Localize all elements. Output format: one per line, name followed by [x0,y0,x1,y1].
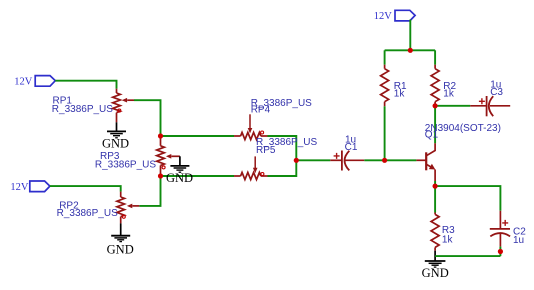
wire C1 to node D [364,159,384,161]
wire node B down to RP2 wiper [139,176,160,206]
wire GND to C2 bottom [435,255,500,257]
capacitor C1 [330,151,364,171]
svg-text:RP4: RP4 [251,104,271,115]
potentiometer RP3 [157,136,180,176]
resistor R1 [381,65,389,107]
wire Q1 emitter to node G [434,181,436,186]
wire RP1 wiper to node A [134,100,161,136]
svg-text:1u: 1u [513,235,524,246]
svg-text:GND: GND [107,242,134,256]
svg-text:12V: 12V [374,11,393,22]
node F junction [433,103,438,108]
svg-text:12V: 12V [10,182,29,193]
transistor Q1 2N3904 [416,143,435,181]
svg-text:R_3386P_US: R_3386P_US [52,104,113,115]
resistor R2 [431,65,439,106]
svg-text:C3: C3 [490,87,503,98]
ground GND2 at RP3 wiper [170,156,189,172]
wire RP4 right to junction C [268,136,297,176]
power flag PWR3 12V top-right [374,10,415,22]
svg-text:1k: 1k [442,234,454,245]
node B junction [158,173,163,178]
wire node B to RP5 left [161,175,235,177]
svg-text:GND: GND [422,266,449,280]
svg-text:GND: GND [102,137,129,151]
svg-text:GND: GND [166,171,193,185]
wire 12V to RP1 top [55,81,116,89]
wire R1 bottom to node D [384,106,386,160]
capacitor C3 [470,96,510,116]
wire node G down to R3 [434,186,436,212]
node E junction [408,48,413,53]
node C junction [294,158,299,163]
ground GND3 under RP2 [107,223,134,256]
wire node G to C2 top [435,186,500,211]
power flag PWR2 12V bottom-left [10,181,49,193]
wire 12V down to node E [409,20,411,51]
wire node C to C1 [296,159,330,161]
wire node F down to Q1 collector [434,106,436,144]
svg-text:R_3386P_US: R_3386P_US [57,208,118,219]
resistor R3 [431,213,439,251]
svg-text:12V: 12V [14,77,33,88]
wire node D to Q1 base [385,159,417,161]
svg-text:R_3386P_US: R_3386P_US [95,159,156,170]
svg-text:RP5: RP5 [256,145,276,156]
node H junction [498,249,503,254]
capacitor C2 [490,211,510,256]
potentiometer RP5 [234,156,268,179]
power flag PWR1 12V top-left [14,76,55,88]
wire node E split to R1 and R2 [385,49,436,51]
wire node A to RP4 left [161,135,235,137]
wire node F to C3 [435,105,470,107]
node A junction [158,133,163,138]
potentiometer RP1 [113,89,134,123]
potentiometer RP2 [117,192,139,224]
node G junction [433,184,438,189]
potentiometer RP4 [234,114,268,139]
svg-text:1k: 1k [394,88,406,99]
svg-text:C1: C1 [345,142,358,153]
svg-text:Q1: Q1 [425,129,439,140]
wire 12V to RP2 top [50,186,121,192]
ground GND4 under R3 [422,251,449,281]
node D junction [382,158,387,163]
svg-text:1k: 1k [443,88,455,99]
ground GND1 under RP1 [102,122,129,150]
